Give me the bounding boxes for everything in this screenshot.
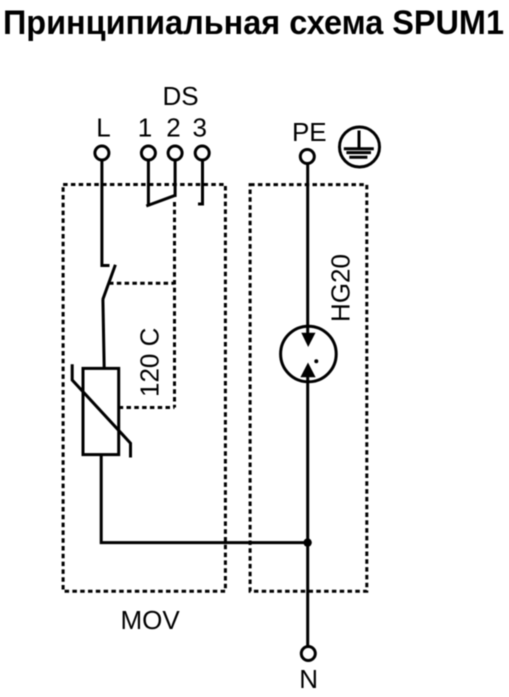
GDT upper electrode arrow — [301, 333, 315, 347]
junction dot — [303, 538, 311, 546]
svg-text:1: 1 — [138, 113, 152, 143]
thermal link dashed bottom horizontal — [119, 406, 175, 409]
wire from L terminal with fixed contact foot — [102, 161, 110, 266]
protective earth symbol circle — [340, 127, 380, 167]
earth symbol bar 3 — [349, 156, 367, 159]
wire from varistor bottom to junction — [101, 455, 307, 543]
svg-text:Принципиальная схема SPUM1: Принципиальная схема SPUM1 — [3, 4, 504, 42]
GDT lower electrode arrow — [300, 363, 315, 378]
wire from terminal 1 — [147, 161, 150, 205]
svg-text:L: L — [96, 113, 110, 143]
svg-text:2: 2 — [166, 113, 180, 143]
svg-text:MOV: MOV — [120, 605, 180, 635]
varistor diagonal stroke — [72, 364, 130, 457]
GDT gas dot — [314, 359, 318, 363]
terminal 1 — [141, 146, 155, 160]
svg-text:N: N — [299, 664, 318, 694]
svg-text:HG20: HG20 — [326, 254, 356, 322]
thermal link dashed horizontal — [109, 282, 175, 285]
GDT module dashed enclosure — [250, 185, 367, 592]
varistor RU body — [83, 368, 119, 454]
terminal L — [95, 146, 109, 160]
wire from switch to varistor — [103, 299, 104, 368]
terminal PE — [300, 150, 314, 164]
svg-text:3: 3 — [192, 113, 206, 143]
terminal 2 — [168, 146, 182, 160]
thermal disconnect switch blade — [103, 265, 116, 300]
gas discharge tube GDT circle — [281, 326, 337, 382]
terminal 3 — [195, 146, 209, 160]
wire from GDT through junction to N terminal — [306, 376, 309, 646]
DS contact blade — [146, 195, 175, 206]
thermal link dashed vertical — [173, 202, 176, 408]
wire from terminal 2 — [174, 161, 177, 197]
svg-text:PE: PE — [292, 117, 327, 147]
svg-text:DS: DS — [162, 81, 198, 111]
earth symbol bar 1 — [344, 147, 374, 150]
svg-text:120 C: 120 C — [135, 328, 165, 397]
MOV module dashed enclosure — [63, 185, 225, 592]
wire from terminal 3 with contact foot — [198, 161, 203, 205]
wire from PE terminal to GDT — [306, 164, 309, 334]
earth symbol bar 2 — [346, 151, 371, 154]
terminal N — [301, 647, 315, 661]
earth symbol stem — [358, 131, 361, 149]
